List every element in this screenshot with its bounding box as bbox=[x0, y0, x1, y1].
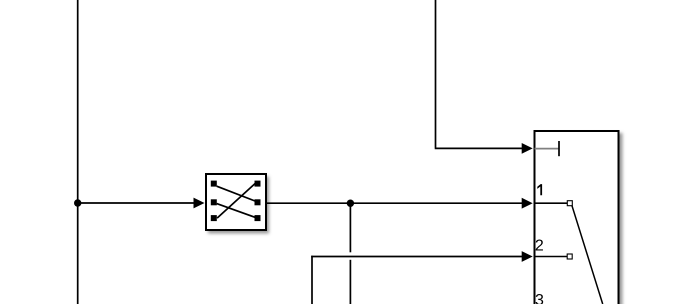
pin square: left middle bbox=[211, 199, 217, 205]
block: permute/selector block shadow bbox=[208, 177, 269, 234]
wire: permute map line left-bottom to right-top bbox=[217, 183, 255, 218]
pin square: left bottom bbox=[211, 215, 217, 221]
wire: horizontal to switch port 2 bbox=[311, 256, 523, 258]
svg-text:2: 2 bbox=[535, 238, 544, 255]
control port symbol: black tick bbox=[558, 141, 560, 156]
wire: vertical drop from junction, lower part after crossover gap bbox=[349, 260, 351, 304]
wire: permute output to switch port 1 bbox=[266, 202, 523, 204]
control port symbol: gray horizontal line bbox=[535, 148, 559, 150]
label: port 1 bbox=[537, 184, 542, 195]
arrowhead into switch control port bbox=[522, 143, 533, 154]
wire: port 1 stub inside switch bbox=[535, 202, 568, 204]
block: multiport switch body bbox=[535, 131, 619, 304]
arrowhead into switch port 1 bbox=[522, 198, 533, 209]
contact square: port 1 bbox=[567, 201, 572, 206]
node: junction dot on left bus at y=203 bbox=[74, 199, 81, 206]
pin square: right bottom bbox=[255, 215, 261, 221]
wire: permute map line left-middle to right-bottom bbox=[217, 204, 255, 218]
block: permute/selector block body bbox=[206, 174, 266, 230]
arrowhead into permute block input bbox=[194, 198, 205, 209]
pin square: right top bbox=[255, 181, 261, 187]
contact square: port 2 bbox=[567, 254, 572, 259]
wire: left vertical bus x=78 top to bottom bbox=[77, 0, 79, 304]
pin square: right middle bbox=[255, 199, 261, 205]
wire: switch wiper slanted line bbox=[572, 206, 603, 304]
wire: horizontal from left bus into permute block input bbox=[78, 202, 195, 204]
wire: vertical drop from junction, upper part before crossover gap bbox=[349, 203, 351, 252]
pin square: left top bbox=[211, 181, 217, 187]
wire: port 2 stub inside switch bbox=[535, 256, 568, 258]
arrowhead into switch port 2 bbox=[522, 251, 533, 262]
wire: control line horizontal into switch top port bbox=[435, 147, 523, 149]
node: junction dot on output wire at x=350 bbox=[347, 200, 354, 207]
wire: permute map line left-top to right-middle bbox=[217, 186, 255, 201]
wire: control line vertical from top at x=435 bbox=[435, 0, 437, 148]
wire: elbow vertical rising from bottom at x=312 bbox=[311, 256, 313, 304]
svg-text:3: 3 bbox=[535, 292, 544, 304]
block: multiport switch shadow bbox=[537, 133, 623, 304]
